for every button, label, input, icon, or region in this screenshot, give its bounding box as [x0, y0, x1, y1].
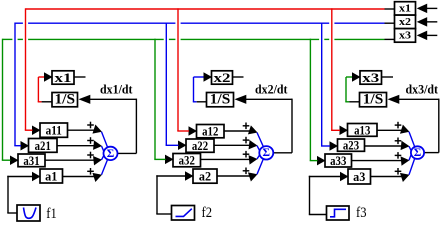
svg-text:Σ: Σ: [414, 147, 422, 159]
svg-text:1/S: 1/S: [210, 92, 231, 108]
svg-text:a33: a33: [330, 153, 347, 168]
svg-text:a3: a3: [353, 169, 366, 184]
svg-text:x1: x1: [55, 70, 72, 85]
svg-text:f3: f3: [356, 205, 367, 221]
svg-text:Σ: Σ: [107, 148, 115, 160]
svg-text:1/S: 1/S: [55, 92, 76, 108]
svg-text:a13: a13: [354, 122, 371, 137]
svg-text:a21: a21: [35, 138, 51, 153]
svg-text:x2: x2: [214, 70, 231, 85]
svg-text:a11: a11: [46, 123, 62, 138]
svg-text:x2: x2: [399, 16, 411, 28]
svg-text:a2: a2: [199, 169, 211, 184]
svg-text:1/S: 1/S: [363, 92, 384, 108]
svg-text:a22: a22: [192, 138, 208, 153]
svg-text:x3: x3: [362, 70, 380, 85]
svg-text:dx1/dt: dx1/dt: [100, 83, 133, 97]
svg-text:dx3/dt: dx3/dt: [406, 83, 439, 97]
svg-text:a31: a31: [23, 153, 39, 168]
svg-text:a32: a32: [179, 153, 195, 168]
svg-text:a23: a23: [343, 138, 360, 153]
svg-text:a1: a1: [45, 169, 57, 184]
svg-text:dx2/dt: dx2/dt: [255, 83, 288, 97]
svg-text:a12: a12: [202, 124, 218, 139]
svg-text:Σ: Σ: [263, 147, 271, 159]
svg-text:x1: x1: [399, 2, 411, 14]
svg-text:x3: x3: [399, 29, 412, 41]
svg-text:f1: f1: [46, 206, 57, 222]
svg-text:f2: f2: [202, 205, 213, 221]
